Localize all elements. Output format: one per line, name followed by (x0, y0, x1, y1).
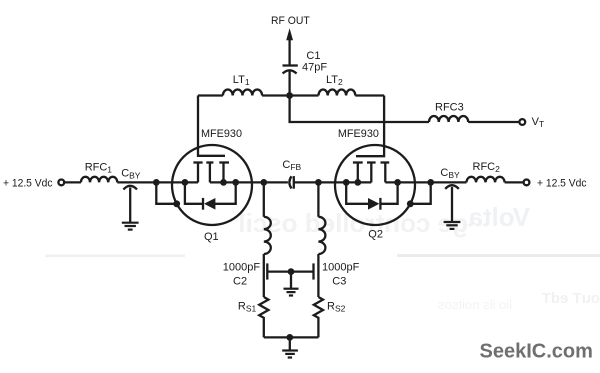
svg-text:+ 12.5 Vdc: + 12.5 Vdc (537, 178, 587, 190)
svg-text:MFE930: MFE930 (201, 128, 242, 140)
svg-text:ge controlled oscil: ge controlled oscil (238, 208, 468, 238)
svg-text:+ 12.5 Vdc: + 12.5 Vdc (3, 178, 53, 190)
svg-text:CBY: CBY (121, 168, 141, 181)
svg-text:LT1: LT1 (233, 74, 250, 87)
svg-text:lio ils noitsos: lio ils noitsos (438, 297, 512, 312)
svg-text:RF OUT: RF OUT (271, 15, 310, 27)
svg-text:CFB: CFB (282, 159, 301, 172)
svg-text:MFE930: MFE930 (338, 128, 379, 140)
svg-text:SeekIC.com: SeekIC.com (480, 341, 593, 363)
svg-text:LT2: LT2 (326, 74, 343, 87)
svg-text:ouT edT: ouT edT (542, 290, 600, 307)
svg-text:Q2: Q2 (368, 229, 383, 241)
svg-text:RFC3: RFC3 (435, 102, 464, 114)
svg-text:Volta: Volta (468, 202, 530, 232)
svg-text:1000pF: 1000pF (223, 261, 261, 273)
svg-text:1000pF: 1000pF (322, 261, 360, 273)
svg-text:C1: C1 (306, 50, 320, 62)
svg-text:47pF: 47pF (302, 62, 327, 74)
svg-text:Q1: Q1 (204, 231, 219, 243)
svg-text:C3: C3 (332, 275, 346, 287)
svg-text:CBY: CBY (440, 167, 460, 180)
svg-text:C2: C2 (233, 275, 247, 287)
svg-text:RFC2: RFC2 (473, 161, 501, 174)
svg-text:RS1: RS1 (238, 300, 257, 313)
svg-text:VT: VT (532, 116, 545, 129)
svg-text:RFC1: RFC1 (85, 162, 113, 175)
svg-text:RS2: RS2 (327, 301, 346, 314)
